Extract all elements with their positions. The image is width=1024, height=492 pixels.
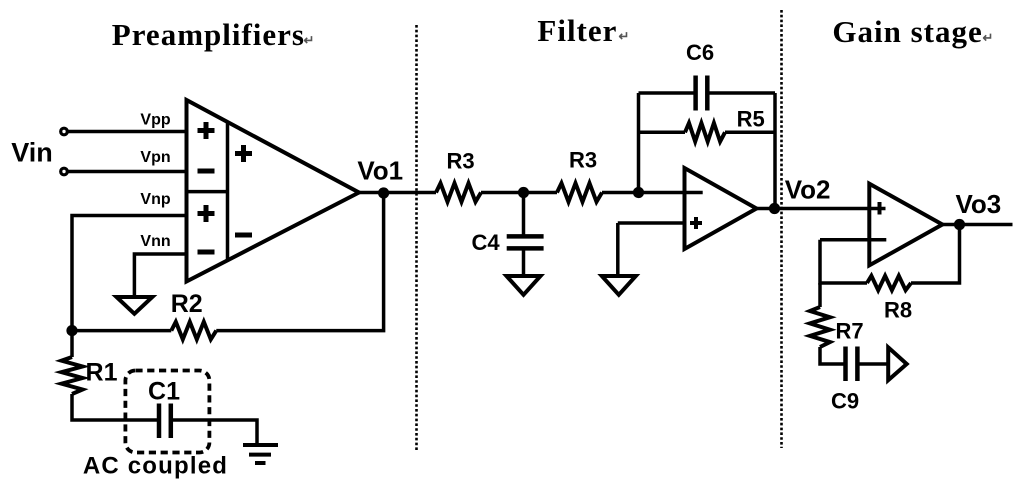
- svg-text:Preamplifiers: Preamplifiers: [112, 17, 305, 52]
- svg-text:C1: C1: [148, 378, 180, 406]
- svg-text:Gain stage: Gain stage: [832, 14, 982, 49]
- svg-text:Vnn: Vnn: [140, 233, 170, 250]
- svg-text:Vnp: Vnp: [140, 191, 170, 208]
- svg-text:Vpp: Vpp: [140, 112, 170, 129]
- svg-text:Vo2: Vo2: [785, 174, 831, 204]
- svg-text:R5: R5: [737, 107, 765, 132]
- svg-text:R2: R2: [171, 290, 203, 318]
- svg-text:Vo1: Vo1: [357, 155, 403, 185]
- svg-text:Vpn: Vpn: [140, 149, 170, 166]
- svg-text:R3: R3: [569, 148, 597, 173]
- svg-text:Vo3: Vo3: [956, 189, 1002, 219]
- svg-text:Filter: Filter: [537, 13, 617, 48]
- svg-text:C4: C4: [471, 230, 500, 255]
- svg-text:↵: ↵: [304, 33, 315, 48]
- svg-text:↵: ↵: [983, 30, 994, 45]
- svg-text:C9: C9: [831, 389, 859, 414]
- svg-text:↵: ↵: [619, 29, 630, 44]
- svg-text:AC coupled: AC coupled: [83, 453, 228, 480]
- svg-text:R3: R3: [446, 149, 474, 174]
- svg-text:Vin: Vin: [11, 138, 53, 168]
- svg-text:R8: R8: [884, 298, 912, 323]
- svg-text:R1: R1: [86, 359, 118, 387]
- svg-text:R7: R7: [835, 319, 863, 344]
- svg-text:C6: C6: [686, 40, 714, 65]
